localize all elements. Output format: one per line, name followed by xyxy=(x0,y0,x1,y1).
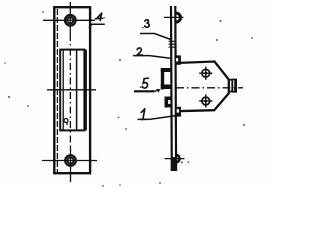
top hole crosshair xyxy=(43,2,95,34)
slot inner right line xyxy=(76,51,78,130)
label 1 xyxy=(141,108,145,119)
bracket outline xyxy=(177,62,229,112)
label 5 xyxy=(140,78,149,88)
mid horizontal centerline xyxy=(47,89,96,91)
label 2 leader xyxy=(133,56,171,59)
label 3 xyxy=(142,20,149,29)
strip (side view of plate) xyxy=(171,6,176,171)
bottom rivet bump xyxy=(171,155,179,171)
slot inner left line xyxy=(62,51,64,130)
bottom hole crosshair xyxy=(42,146,97,182)
upper clamp section xyxy=(161,68,171,90)
screw S1 xyxy=(199,67,212,80)
label 4 leader xyxy=(89,24,105,28)
label 3 leader xyxy=(140,34,171,40)
vertical axis dash-dot xyxy=(69,34,71,146)
label 5 leader with arrow xyxy=(134,89,161,93)
top rivet bump xyxy=(176,13,181,22)
top hole circles xyxy=(65,15,76,26)
plate left double edge line xyxy=(56,9,58,172)
slot right edge thick xyxy=(84,50,87,131)
screw S2 xyxy=(199,94,212,107)
strip hatch ticks xyxy=(169,41,175,47)
slot cutout xyxy=(60,50,84,131)
lower mounting tab xyxy=(175,107,181,117)
label 2 xyxy=(137,48,144,57)
lower clamp section xyxy=(165,97,172,108)
latch tongue xyxy=(230,79,237,93)
scan specks xyxy=(4,11,253,187)
bottom rivet crosshair xyxy=(165,158,185,160)
plate outline (left view) xyxy=(54,7,90,173)
bottom hole circles xyxy=(65,155,76,166)
top mounting tab xyxy=(175,55,181,64)
small mark in slot xyxy=(64,119,68,126)
bracket centerline xyxy=(176,87,243,89)
label 1 leader xyxy=(138,116,176,120)
top rivet crosshair xyxy=(164,16,184,18)
label 4 xyxy=(96,13,105,20)
